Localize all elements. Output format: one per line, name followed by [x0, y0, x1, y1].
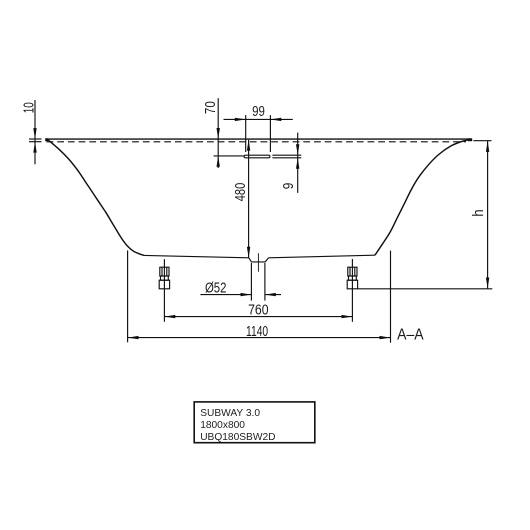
- svg-text:h: h: [471, 209, 487, 216]
- floor line: [358, 288, 493, 290]
- left foot threaded box: [160, 267, 169, 276]
- overflow slot capsule: [244, 155, 270, 158]
- left foot base: [159, 280, 169, 289]
- svg-text:70: 70: [203, 101, 219, 114]
- dim 99 line: [224, 118, 293, 120]
- svg-text:Ø52: Ø52: [205, 280, 227, 296]
- tub bottom right segment: [269, 255, 375, 258]
- rim right end cap: [468, 138, 472, 141]
- dim 1140 line: [128, 337, 391, 339]
- overflow wall line lower: [272, 157, 301, 159]
- svg-text:10: 10: [22, 102, 38, 113]
- overflow wall line upper: [272, 154, 301, 156]
- svg-text:SUBWAY 3.0: SUBWAY 3.0: [200, 408, 260, 419]
- left foot collar: [161, 276, 169, 280]
- rim left end cap: [45, 138, 48, 141]
- svg-text:760: 760: [248, 303, 268, 319]
- drain recess: [249, 258, 269, 262]
- svg-text:99: 99: [252, 104, 265, 120]
- dim diam52 lines: [200, 294, 251, 296]
- svg-text:A–A: A–A: [397, 326, 424, 343]
- waterline dashed: [47, 141, 467, 143]
- title block box: [194, 402, 315, 443]
- svg-text:1140: 1140: [246, 324, 268, 340]
- tub bottom left segment: [144, 255, 249, 257]
- dim 10 line: [34, 100, 36, 164]
- right foot collar: [349, 276, 357, 280]
- right foot threaded box: [348, 267, 357, 276]
- svg-text:9: 9: [281, 183, 297, 190]
- left foot centerline: [163, 259, 165, 322]
- dim 9 line: [297, 133, 299, 193]
- dim 480 line: [248, 140, 250, 258]
- drain centerline: [257, 253, 259, 272]
- right foot centerline: [351, 259, 353, 322]
- dim h line: [487, 141, 489, 288]
- right foot base: [347, 280, 357, 289]
- svg-text:480: 480: [233, 183, 249, 202]
- svg-text:1800x800: 1800x800: [200, 420, 245, 431]
- svg-text:UBQ180SBW2D: UBQ180SBW2D: [200, 432, 275, 443]
- tub right profile curve: [375, 140, 471, 255]
- dim 760 line: [164, 316, 352, 318]
- dim 70 line: [217, 98, 219, 168]
- tub left profile curve: [48, 140, 144, 256]
- rim top line: [46, 138, 471, 140]
